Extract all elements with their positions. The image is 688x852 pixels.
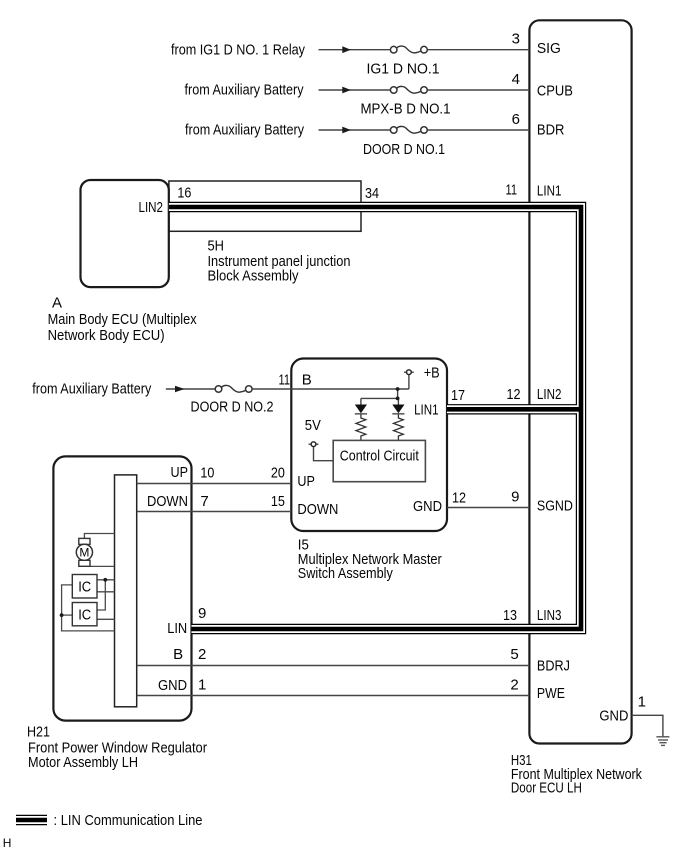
svg-text:Main Body ECU (Multiplex: Main Body ECU (Multiplex [48,311,197,328]
svg-text:Block Assembly: Block Assembly [208,268,299,285]
svg-text:PWE: PWE [537,685,565,702]
svg-text:+B: +B [424,364,440,381]
svg-text:SGND: SGND [537,498,573,515]
svg-text:GND: GND [599,707,628,724]
svg-text:CPUB: CPUB [537,82,573,99]
svg-text:6: 6 [512,111,520,128]
svg-text:34: 34 [365,185,379,202]
svg-text:1: 1 [198,677,206,694]
svg-text:LIN1: LIN1 [537,182,562,199]
svg-text:from Auxiliary Battery: from Auxiliary Battery [32,381,151,398]
svg-text:H21: H21 [27,724,50,741]
svg-text:5V: 5V [305,417,321,434]
svg-text:LIN2: LIN2 [139,199,164,216]
svg-text:12: 12 [507,386,521,403]
svg-text:GND: GND [158,677,187,694]
svg-text:2: 2 [198,646,206,663]
svg-text:IC: IC [78,578,91,595]
svg-text:5H: 5H [208,238,225,255]
svg-text:9: 9 [511,489,519,506]
svg-text:B: B [302,372,312,389]
svg-text:16: 16 [177,185,191,202]
svg-text:DOOR D NO.1: DOOR D NO.1 [363,141,445,158]
svg-text:UP: UP [297,473,315,490]
svg-text:10: 10 [200,465,214,482]
svg-text:M: M [79,545,89,559]
svg-text:BDRJ: BDRJ [537,658,570,675]
svg-text:A: A [52,294,62,311]
svg-text:DOOR D NO.2: DOOR D NO.2 [191,399,274,416]
svg-text:11: 11 [506,182,518,199]
svg-text:LIN2: LIN2 [537,386,562,403]
svg-text:13: 13 [503,607,517,624]
svg-text:15: 15 [271,493,285,510]
svg-text:2: 2 [510,677,518,694]
svg-text:: LIN Communication Line: : LIN Communication Line [54,812,203,829]
svg-text:9: 9 [198,605,206,622]
svg-text:Door ECU LH: Door ECU LH [511,779,582,796]
svg-text:5: 5 [510,646,518,663]
svg-text:H: H [3,836,12,850]
svg-text:IC: IC [78,606,91,623]
svg-text:BDR: BDR [537,122,565,139]
svg-text:from Auxiliary Battery: from Auxiliary Battery [185,82,304,99]
svg-text:UP: UP [171,464,189,481]
svg-text:MPX-B D NO.1: MPX-B D NO.1 [361,101,451,118]
svg-text:DOWN: DOWN [147,493,188,510]
svg-text:B: B [173,646,183,663]
svg-text:17: 17 [451,387,465,404]
svg-text:1: 1 [638,693,646,710]
svg-text:Network Body ECU): Network Body ECU) [48,327,165,344]
svg-text:IG1 D NO.1: IG1 D NO.1 [367,61,440,78]
svg-text:12: 12 [452,489,466,506]
svg-text:Control Circuit: Control Circuit [340,447,420,464]
svg-text:7: 7 [200,493,208,510]
svg-text:LIN3: LIN3 [537,607,562,624]
svg-text:DOWN: DOWN [297,501,338,518]
svg-text:3: 3 [512,31,520,48]
svg-text:11: 11 [279,372,291,389]
svg-text:from IG1 D NO. 1 Relay: from IG1 D NO. 1 Relay [171,41,305,58]
svg-text:4: 4 [512,71,520,88]
svg-text:20: 20 [271,465,285,482]
svg-text:GND: GND [413,498,442,515]
svg-text:SIG: SIG [537,40,561,57]
svg-text:from Auxiliary Battery: from Auxiliary Battery [185,122,304,139]
svg-text:LIN: LIN [167,620,187,637]
svg-text:Motor Assembly LH: Motor Assembly LH [28,754,138,771]
svg-text:Switch Assembly: Switch Assembly [298,565,393,582]
svg-text:LIN1: LIN1 [414,401,439,418]
